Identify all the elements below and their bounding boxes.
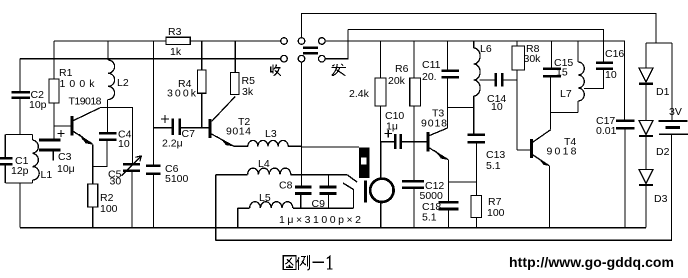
wire mic top branch x380.8 <box>380 142 382 179</box>
wire L4 row y174.6 <box>216 174 347 176</box>
wire C3 bottom stub <box>52 151 54 161</box>
transistor T4 <box>530 130 551 166</box>
capacitor C8 <box>295 187 312 194</box>
svg-text:10μ: 10μ <box>57 163 75 175</box>
wire 2.4k branch x380.5 <box>380 41 382 142</box>
wire L6 tap to C14 <box>480 79 517 81</box>
wire emitter to R7 top y182 <box>449 181 477 183</box>
svg-text:30k: 30k <box>524 53 542 65</box>
svg-text:D1: D1 <box>656 86 670 98</box>
wire C13 bottom to R7 <box>476 144 478 196</box>
wire rail top y13.5 from switch middle to battery <box>301 14 656 44</box>
wire R5 branch x235.3 <box>234 41 236 73</box>
wire L3 right to node <box>288 145 301 147</box>
wire switch top-middle stub <box>301 14 303 38</box>
wire C5 bottom <box>131 172 133 228</box>
label fa transmit <box>332 64 346 76</box>
capacitor C4 <box>99 133 117 140</box>
resistor R4 <box>198 70 207 93</box>
caption tuli-1 <box>283 255 332 270</box>
inductor L1 <box>33 140 40 180</box>
wire L6 branch x473.7 <box>473 41 475 134</box>
resistor R2 <box>88 184 98 207</box>
svg-text:12p: 12p <box>11 165 29 177</box>
wire C15 branch x551.5 <box>551 41 553 68</box>
wire L2 bottom to C4 <box>107 100 109 133</box>
svg-text:2.4k: 2.4k <box>349 88 370 100</box>
svg-text:10p: 10p <box>29 99 47 111</box>
wire node y112.5 to L7 <box>551 112 579 114</box>
capacitor C10 electrolytic vertical plates <box>395 134 401 149</box>
wire rail y41 right section to C17 corner <box>325 41 625 120</box>
transistor T3 <box>427 128 450 160</box>
capacitor C12 <box>402 181 424 187</box>
transistor T1 <box>71 108 101 145</box>
capacitor C1 <box>0 158 13 164</box>
svg-text:R3: R3 <box>168 26 182 38</box>
wire T4 emitter down <box>549 166 551 228</box>
svg-text:5.1: 5.1 <box>486 160 501 172</box>
svg-text:10: 10 <box>118 138 130 150</box>
switch DPDT receive/transmit circles <box>281 38 325 62</box>
svg-text:L5: L5 <box>259 192 271 204</box>
wire L1 stubs <box>32 135 34 184</box>
earphone jack plug <box>359 147 369 178</box>
svg-text:D3: D3 <box>654 193 668 205</box>
diode D1 <box>639 68 653 84</box>
resistor R6 <box>410 78 421 106</box>
svg-text:300k: 300k <box>167 88 197 100</box>
svg-text:3k: 3k <box>242 86 254 98</box>
wire jack top y147 <box>302 146 360 148</box>
svg-text:D2: D2 <box>656 146 670 158</box>
wire rail A top-left y41 <box>54 40 281 42</box>
plus sign C3 <box>58 130 65 137</box>
svg-text:C8: C8 <box>279 180 293 192</box>
capacitor C17 <box>616 121 635 129</box>
svg-text:30: 30 <box>110 176 122 188</box>
wire R4 branch x201.7 <box>201 41 203 128</box>
wire ground rail y227.7 <box>20 227 646 229</box>
wire R7 bottom <box>476 218 478 228</box>
inductor L4 <box>248 168 291 175</box>
wire L7 branch x578 <box>577 41 579 113</box>
resistor R8 <box>512 46 525 70</box>
wire C8 bottom <box>300 194 302 208</box>
wire T1 base <box>54 125 71 127</box>
wire L2 branch x108 <box>107 41 109 60</box>
wire C6 branch x153.5 <box>153 41 155 228</box>
wire mic bottom <box>380 202 382 227</box>
svg-text:C3: C3 <box>58 151 72 163</box>
capacitor C13 <box>468 135 486 143</box>
wire tank to ground <box>19 183 21 228</box>
svg-text:100: 100 <box>487 207 505 219</box>
wire rail y29.5 from switch right-bottom to C16 <box>348 30 604 63</box>
wire T1 emitter down to R2 <box>92 145 94 185</box>
inductor L6 <box>474 48 480 96</box>
wire R2 bottom <box>92 207 94 228</box>
inductor L5 <box>250 202 293 209</box>
wire diode chain x646 <box>645 43 647 228</box>
inductor L3 <box>248 140 288 146</box>
capacitor C18 <box>439 202 459 209</box>
wire C4 bottom to emitter node <box>93 141 107 167</box>
diode D2 <box>639 121 653 137</box>
wire from bottom-right switch circle up to y29.5 <box>325 30 348 59</box>
plus sign C7 <box>161 115 169 123</box>
svg-text:L6: L6 <box>480 43 492 55</box>
wire T4 base <box>517 149 530 151</box>
wire R6 branch x414.5 <box>413 41 415 142</box>
svg-text:C7: C7 <box>182 128 196 140</box>
wire switch middle bottom down x301.5 <box>301 62 303 186</box>
svg-text:5.1: 5.1 <box>422 212 437 224</box>
plus sign C10 <box>385 130 393 137</box>
capacitor C7 electrolytic vertical plates <box>173 119 180 136</box>
wire rail B second-left y59 <box>20 58 281 60</box>
transistor T2 <box>209 97 236 147</box>
svg-text:1k: 1k <box>170 46 182 58</box>
svg-text:2.2μ: 2.2μ <box>162 138 183 150</box>
capacitor C3 electrolytic <box>39 140 61 150</box>
wire battery top horizontal y43 <box>646 42 672 44</box>
svg-text:C16: C16 <box>605 48 624 60</box>
wire T2 emitter to L3 <box>234 145 248 147</box>
svg-text:http://www.go-gddq.com: http://www.go-gddq.com <box>509 254 674 270</box>
resistor R1 <box>49 79 59 103</box>
svg-text:15: 15 <box>556 67 568 79</box>
resistor R7 <box>471 196 482 218</box>
wire C10 row y141.7 <box>381 141 427 143</box>
svg-text:0.01: 0.01 <box>596 125 617 137</box>
wire C7 row y127.7 <box>154 127 209 129</box>
label shou receive <box>271 64 281 76</box>
svg-text:L1: L1 <box>41 169 53 181</box>
wire L4 left down to rail2 <box>215 175 217 241</box>
wire C15 bottom / T4 collector node <box>550 77 552 130</box>
wire R1 branch x54 <box>53 41 55 139</box>
capacitor C6 <box>146 166 161 174</box>
svg-text:L2: L2 <box>117 77 129 89</box>
wire jack lower contact arm <box>343 183 354 208</box>
svg-text:3V: 3V <box>669 106 682 118</box>
capacitor C5 variable <box>123 164 140 170</box>
wire C1 left branch <box>4 135 6 184</box>
diode D3 <box>639 170 653 186</box>
wire C2 branch x20 <box>19 59 21 135</box>
svg-text:C11: C11 <box>422 59 441 71</box>
svg-text:1μ: 1μ <box>386 121 398 133</box>
wire C9 top branch <box>328 175 330 186</box>
wire C9 bottom <box>328 194 330 208</box>
switch contact bars <box>303 46 318 49</box>
svg-text:T19018: T19018 <box>69 96 102 108</box>
wire C17 bottom <box>624 129 626 228</box>
svg-text:9018: 9018 <box>421 118 447 130</box>
inductor L2 <box>108 60 115 100</box>
resistor R5 <box>231 73 240 95</box>
wire T3 collector node y107.5 <box>448 107 474 109</box>
wire L5 row y208.2 <box>238 207 354 209</box>
microphone MIC <box>364 179 394 203</box>
wire tank top <box>5 134 32 136</box>
wire T1 collector node y107.5 <box>100 108 133 164</box>
svg-text:20k: 20k <box>388 75 406 87</box>
wire battery plus x672 <box>671 43 673 121</box>
wire T3 emitter down x448.5 <box>448 160 450 228</box>
wire C11 branch x447.5 <box>447 41 449 128</box>
wire R8 branch x517 <box>516 41 518 150</box>
capacitor C15 <box>543 69 561 77</box>
svg-text:10: 10 <box>491 101 503 113</box>
svg-text:10: 10 <box>605 69 617 81</box>
inductor L7 <box>578 62 584 101</box>
svg-text:R6: R6 <box>395 63 409 75</box>
wire L5 left down <box>237 208 239 228</box>
wire lower rail y240.3 to battery minus <box>216 135 672 241</box>
svg-text:L4: L4 <box>258 158 270 170</box>
wire L7 tap to C16 bottom <box>584 70 603 89</box>
resistor R3 <box>166 37 190 44</box>
capacitor C9 <box>320 187 337 194</box>
wire jack upper contact arm <box>347 175 357 183</box>
capacitor C16 <box>596 63 613 69</box>
wire C12 branch <box>413 142 415 228</box>
capacitor C14 vertical plates <box>496 73 503 87</box>
svg-text:L7: L7 <box>560 88 572 100</box>
svg-text:100: 100 <box>100 203 118 215</box>
svg-text:9014: 9014 <box>226 126 251 138</box>
svg-text:C9: C9 <box>312 198 326 210</box>
capacitor C11 <box>442 71 460 78</box>
resistor 2.4k <box>375 78 386 106</box>
capacitor C2 <box>12 92 31 97</box>
svg-text:20.: 20. <box>422 71 437 83</box>
battery 3V <box>659 121 688 134</box>
svg-text:5100: 5100 <box>165 173 189 185</box>
svg-text:L3: L3 <box>265 128 277 140</box>
wire tank bottom <box>5 182 32 184</box>
